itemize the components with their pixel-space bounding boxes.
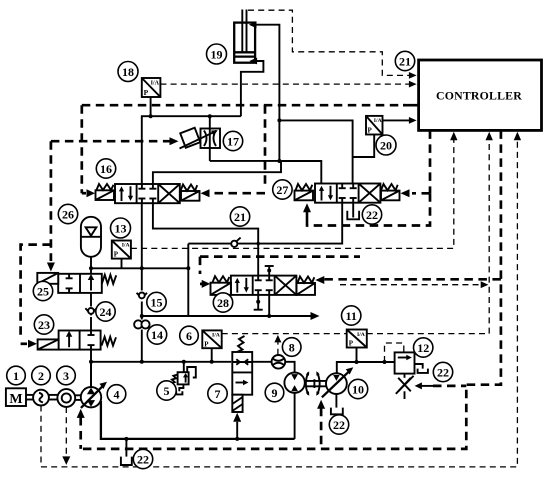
wire: pump column and bottom rail bbox=[89, 350, 231, 388]
node label 11 bbox=[342, 306, 361, 325]
svg-text:25: 25 bbox=[37, 284, 49, 298]
node label 21 top bbox=[395, 51, 414, 70]
node label 4 bbox=[107, 385, 126, 404]
svg-text:22: 22 bbox=[333, 418, 345, 432]
svg-text:I/A: I/A bbox=[122, 243, 131, 249]
check valve 24 bbox=[85, 293, 98, 331]
wire: bold dashed drop with arrow into valve 16 right end bbox=[201, 105, 266, 197]
wire: dashed flow meter 8 signal up to bus bbox=[274, 335, 281, 355]
wire: bold dashed drop with arrow into valve 16 left solenoid bbox=[82, 105, 95, 197]
relief valve 12 bbox=[385, 343, 428, 374]
wire: valve 16 A-port loop up to rod-side node bbox=[153, 161, 281, 184]
svg-text:1: 1 bbox=[13, 369, 19, 383]
svg-text:I/A: I/A bbox=[374, 118, 383, 124]
directional valve 27 bbox=[295, 184, 400, 203]
svg-text:6: 6 bbox=[186, 329, 192, 343]
variable pump 4 bbox=[81, 362, 107, 408]
svg-text:11: 11 bbox=[346, 309, 357, 323]
wire: cylinder bottom port line down to valve network bbox=[241, 61, 264, 116]
wire: bold dashed top rail to controller bbox=[82, 104, 420, 107]
node label 20 bbox=[376, 135, 396, 155]
node label 26 bbox=[58, 204, 77, 223]
wire: light dashed sensor bus mid (sensors 6,8,11 to controller) bbox=[222, 132, 493, 334]
svg-text:7: 7 bbox=[215, 387, 221, 401]
wire: speed/torque signal drops bbox=[41, 406, 70, 467]
svg-text:P: P bbox=[349, 340, 354, 348]
wire: bold dashed from controller to valve 27 right end bbox=[401, 130, 431, 197]
solenoid valve 25 bbox=[37, 273, 116, 293]
wire: sensor13 line / check line from branch node to valve 27 B port bbox=[186, 203, 342, 316]
controller U bbox=[419, 60, 542, 130]
wire: line to valve 27 P-port with sensor 20 tap bbox=[279, 120, 352, 183]
node label 10 bbox=[348, 379, 367, 398]
svg-text:22: 22 bbox=[366, 208, 378, 222]
node label 22 (motor 10 tank) bbox=[329, 415, 348, 434]
svg-text:I/A: I/A bbox=[357, 332, 366, 338]
flow meter 8 bbox=[272, 355, 286, 369]
node label 5 bbox=[157, 381, 176, 400]
pressure sensor 11 bbox=[347, 330, 387, 365]
wire: return rail to tank and pump suction bbox=[101, 401, 295, 465]
svg-text:10: 10 bbox=[352, 382, 364, 396]
svg-text:22: 22 bbox=[437, 365, 449, 379]
svg-text:22: 22 bbox=[137, 452, 149, 466]
node label 18 bbox=[118, 62, 138, 82]
node label 7 bbox=[208, 384, 227, 403]
svg-text:23: 23 bbox=[38, 318, 50, 332]
svg-text:I/A: I/A bbox=[151, 80, 160, 86]
node label 21 mid bbox=[230, 207, 249, 226]
svg-text:2: 2 bbox=[38, 369, 44, 383]
svg-text:17: 17 bbox=[227, 134, 239, 148]
tank 22 under valve 27 bbox=[347, 203, 359, 220]
directional valve 28 bbox=[211, 276, 316, 295]
relief valve 5 bbox=[171, 362, 196, 395]
wire: lower branch line to valve 28 and arrow to load box bbox=[142, 295, 320, 320]
wire: accumulator cross line bbox=[89, 266, 188, 270]
svg-text:13: 13 bbox=[115, 221, 127, 235]
node label 27 bbox=[273, 180, 292, 199]
check valve 15 bbox=[136, 291, 148, 302]
node label 17 bbox=[223, 131, 242, 150]
pressure sensor 6 bbox=[202, 330, 221, 361]
wire: rod-side line from cylinder 19 down to junction node bbox=[256, 25, 280, 161]
svg-text:5: 5 bbox=[164, 384, 170, 398]
svg-text:9: 9 bbox=[272, 386, 278, 400]
node label 13 bbox=[111, 218, 131, 238]
svg-text:19: 19 bbox=[211, 47, 223, 61]
wire: bold dashed controller command bus bbox=[81, 130, 501, 449]
node label 8 bbox=[282, 338, 301, 357]
svg-text:28: 28 bbox=[217, 296, 229, 310]
wire: bold pilot line with arrow into throttle 17 bbox=[51, 137, 179, 145]
wire: main line valve7 to flow meter 8 to motor 9 bbox=[252, 362, 294, 373]
cylinder 19 bbox=[234, 10, 257, 65]
proportional throttle valve 7 bbox=[232, 336, 252, 439]
solenoid valve 23 bbox=[38, 331, 116, 350]
node label 22 (valve 27 tank) bbox=[362, 205, 381, 224]
svg-text:P: P bbox=[204, 340, 209, 348]
pressure sensor 13 bbox=[112, 241, 131, 269]
node label 15 bbox=[147, 292, 166, 311]
svg-text:14: 14 bbox=[151, 328, 163, 342]
wire: bold dashed box top over valve 28 bbox=[200, 257, 360, 288]
node label 16 bbox=[96, 159, 115, 178]
svg-text:15: 15 bbox=[151, 295, 163, 309]
svg-text:P: P bbox=[114, 251, 119, 259]
svg-text:26: 26 bbox=[62, 207, 74, 221]
node label 28 bbox=[213, 293, 232, 312]
torque sensor 3 bbox=[57, 389, 81, 407]
wire: dashed signal sensor 13 to controller bbox=[131, 132, 458, 249]
node label 14 bbox=[147, 325, 166, 344]
shaft 9-10 with rotation arrows bbox=[305, 371, 326, 396]
wire: motor 10 control arrow from bold bus bbox=[317, 400, 325, 449]
throttle + flow control valve 17 bbox=[180, 116, 221, 161]
node label 25 bbox=[33, 281, 52, 300]
svg-text:12: 12 bbox=[417, 341, 429, 355]
svg-text:27: 27 bbox=[276, 183, 288, 197]
node label 22 (valve 12 tank) bbox=[433, 362, 452, 381]
wire: dashed position feedback from cylinder rod to controller bbox=[248, 10, 417, 79]
node label 23 bbox=[34, 315, 53, 334]
node label 24 bbox=[96, 302, 115, 321]
wire: pump 4 control arrow from bold bus bbox=[77, 409, 85, 449]
svg-text:P: P bbox=[144, 88, 149, 97]
svg-text:16: 16 bbox=[100, 162, 112, 176]
svg-text:3: 3 bbox=[63, 369, 69, 383]
directional valve 16 bbox=[96, 184, 200, 203]
svg-text:18: 18 bbox=[122, 65, 134, 79]
wire: rod-side node junction lines bbox=[210, 118, 321, 183]
pressure sensor 20 bbox=[353, 116, 417, 157]
svg-text:20: 20 bbox=[380, 138, 392, 152]
node label 22 (main tank) bbox=[133, 449, 152, 468]
svg-text:CONTROLLER: CONTROLLER bbox=[436, 88, 522, 102]
node label 9 bbox=[265, 383, 284, 402]
svg-text:I/A: I/A bbox=[212, 333, 221, 339]
node label 12 bbox=[414, 338, 433, 357]
svg-text:P: P bbox=[368, 127, 373, 135]
svg-text:24: 24 bbox=[100, 305, 112, 319]
hydraulic motor 9 bbox=[284, 373, 304, 439]
wire: bold dashed command into valve 28 right end bbox=[315, 276, 501, 284]
node label 3 bbox=[57, 366, 76, 385]
flow meter 14 bbox=[133, 320, 151, 330]
electric motor 1 bbox=[6, 388, 33, 407]
wire: main line from cylinder bottom across to valve 16 supply bbox=[142, 114, 241, 184]
node label 1 bbox=[7, 366, 26, 385]
node label 6 bbox=[180, 326, 199, 345]
variable throttle below valve 12 bbox=[396, 374, 467, 399]
wire: dashed signal sensor 18 to controller bbox=[160, 81, 416, 88]
wire: main supply column (valve16 to pump) bbox=[140, 203, 144, 364]
svg-text:21: 21 bbox=[399, 54, 411, 68]
svg-text:8: 8 bbox=[289, 340, 295, 354]
svg-text:21: 21 bbox=[234, 210, 246, 224]
check valve on pilot line bbox=[231, 238, 240, 247]
wire: valve 16 B-port line down and across to valve 28 bbox=[153, 203, 258, 275]
wire: light dashed feedback from valve 28 to controller drop bbox=[340, 281, 488, 288]
variable motor 10 bbox=[322, 362, 395, 414]
svg-text:M: M bbox=[9, 392, 22, 407]
node label 19 bbox=[207, 44, 227, 64]
coupling 2 bbox=[33, 390, 57, 406]
plugged port stubs valve 28 bbox=[254, 266, 274, 310]
node label 2 bbox=[32, 366, 51, 385]
wire: bold dashed loop to valve 27 left solenoid bbox=[303, 193, 430, 227]
wire: light dashed bottom bus to controller bbox=[41, 132, 521, 467]
svg-text:4: 4 bbox=[114, 387, 120, 401]
pressure sensor 18 bbox=[142, 78, 161, 116]
wire: bold dashed left drop to valves 25/23 bbox=[21, 141, 55, 348]
accumulator 26 bbox=[81, 217, 101, 274]
